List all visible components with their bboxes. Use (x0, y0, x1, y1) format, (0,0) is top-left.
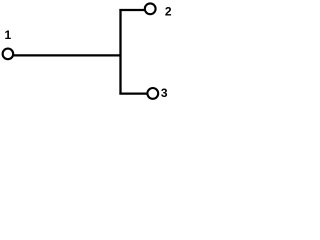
svg-text:3: 3 (161, 86, 168, 100)
svg-text:1: 1 (4, 28, 11, 42)
svg-text:2: 2 (165, 4, 172, 18)
